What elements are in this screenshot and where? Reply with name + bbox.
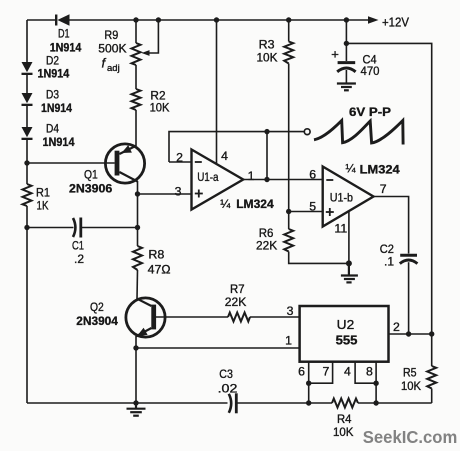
ground below U1-b pin11 [341, 263, 358, 282]
svg-text:10K: 10K [150, 101, 171, 115]
diode D3 [22, 93, 33, 106]
node R9 wiper top [156, 17, 161, 22]
svg-text:2N3906: 2N3906 [69, 182, 112, 196]
svg-text:1N914: 1N914 [38, 67, 70, 81]
svg-text:1N914: 1N914 [43, 135, 75, 149]
svg-text:6V P-P: 6V P-P [349, 105, 391, 119]
svg-text:470: 470 [361, 64, 380, 78]
wire R7 to 555 pin3 [250, 316, 300, 318]
node left rail / C1 [24, 225, 29, 230]
svg-text:22K: 22K [225, 295, 247, 309]
wire bottom rail R4 to right rail [358, 402, 432, 404]
svg-text:1K: 1K [37, 199, 50, 213]
wire Q2 emitter to bottom rail [135, 348, 137, 403]
wire Q1 collector to R8 [137, 194, 139, 246]
svg-text:Q2: Q2 [90, 300, 104, 314]
wire 555 pin2 [389, 333, 432, 335]
node Q1 collector junction [135, 191, 140, 196]
Q1 emitter (to R2) [119, 146, 136, 154]
svg-text:.2: .2 [74, 252, 84, 266]
svg-text:3: 3 [287, 304, 294, 318]
svg-text:¼: ¼ [220, 197, 231, 211]
node pin2 / right rail [429, 331, 434, 336]
svg-text:2: 2 [393, 320, 400, 334]
wire U1-a feedback loop [169, 132, 304, 162]
svg-text:adj: adj [107, 63, 120, 74]
node left rail / Q1 base [24, 160, 29, 165]
svg-text:SeekIC.com: SeekIC.com [363, 427, 458, 447]
svg-text:7: 7 [322, 365, 329, 379]
transistor Q2 2N3904 [126, 298, 228, 348]
wire U1-b pin5 stub [289, 211, 323, 213]
svg-text:6: 6 [309, 167, 316, 181]
node bottom rail pins6-7 [306, 400, 311, 405]
wire R6 bottom to pin11 ground node [289, 252, 349, 264]
wire pin5 node to R6 [288, 212, 290, 230]
node pins 4-8 join [373, 381, 378, 386]
svg-text:C1: C1 [72, 239, 84, 253]
Q2 collector [137, 299, 151, 306]
U1-a minus sign [195, 161, 202, 163]
U1-a plus sign [195, 193, 203, 195]
sawtooth waveform [314, 121, 403, 145]
svg-text:f: f [102, 56, 107, 71]
node pin5 / R3 / R6 [286, 209, 291, 214]
svg-text:10K: 10K [401, 379, 422, 393]
svg-text:R3: R3 [259, 38, 275, 52]
node U1-a output [264, 177, 269, 182]
svg-text:7: 7 [380, 182, 387, 196]
svg-text:¼: ¼ [346, 162, 357, 176]
node pin2 / C2 [406, 331, 411, 336]
wire U1-b pin11 [348, 211, 350, 263]
svg-text:LM324: LM324 [360, 162, 400, 176]
svg-text:R7: R7 [230, 282, 245, 296]
node bottom rail pins4-8 [373, 400, 378, 405]
svg-text:11: 11 [334, 221, 347, 235]
svg-text:6: 6 [298, 365, 305, 379]
op-amp U1-a [192, 150, 244, 210]
svg-text:U2: U2 [337, 317, 355, 332]
U1-b plus sign [326, 211, 334, 213]
transistor Q1 2N3906 [29, 110, 145, 194]
svg-text:D4: D4 [46, 122, 59, 136]
wire output up to feedback [266, 132, 268, 180]
ground below C4 [337, 84, 356, 91]
wire left rail [26, 20, 28, 62]
R9 wiper arm [149, 20, 159, 53]
wire R5 bottom to rail corner [431, 389, 433, 404]
+12V arrowhead [368, 16, 379, 23]
node feedback junction [264, 129, 269, 134]
resistor R2 [132, 89, 141, 110]
node pins 6-7 join [306, 381, 311, 386]
wire bottom rail left segment [27, 402, 228, 404]
svg-text:4: 4 [344, 365, 351, 379]
ground below Q2 [127, 403, 146, 416]
svg-text:47Ω: 47Ω [148, 263, 171, 277]
svg-text:22K: 22K [256, 239, 278, 253]
diode D4 [22, 127, 33, 140]
svg-text:D1: D1 [58, 27, 70, 41]
resistor R4 [332, 399, 358, 408]
resistor R8 [133, 246, 142, 270]
svg-text:C3: C3 [219, 367, 233, 381]
svg-text:2N3904: 2N3904 [76, 314, 118, 328]
IC U2 555 [300, 306, 389, 362]
diode D1 [55, 14, 70, 25]
svg-text:U1-a: U1-a [197, 170, 219, 184]
svg-text:+12V: +12V [382, 15, 409, 30]
node R3 top rail [286, 17, 291, 22]
svg-text:4: 4 [221, 149, 228, 163]
svg-text:1: 1 [248, 169, 255, 183]
svg-text:500K: 500K [98, 42, 127, 56]
svg-text:10K: 10K [333, 425, 354, 439]
resistor R3 [284, 20, 293, 212]
svg-text:1N914: 1N914 [41, 101, 72, 115]
node pin4 top rail [214, 17, 219, 22]
Q1 collector [119, 172, 137, 182]
open terminal circle [304, 129, 310, 135]
wire U1-a pin4 from top rail [216, 20, 218, 164]
wire C4 branch to right rail [346, 43, 431, 366]
node Q2 emitter / 555 pin1 [133, 345, 138, 350]
svg-text:.1: .1 [384, 255, 394, 269]
svg-text:555: 555 [336, 333, 358, 348]
wire top rail D1 to +12V arrow [70, 19, 370, 21]
svg-text:R8: R8 [148, 248, 164, 262]
op-amp U1-b [323, 167, 374, 227]
wire U1-a pin3 from Q1 collector [138, 193, 192, 195]
capacitor C2 [400, 255, 418, 334]
potentiometer R9 [132, 20, 159, 89]
capacitor C3 [229, 393, 237, 413]
node bottom rail at Q2 ground [133, 400, 138, 405]
svg-text:R4: R4 [337, 412, 352, 426]
resistor R6 [284, 229, 293, 252]
Q1 base wire [29, 162, 115, 164]
capacitor C4 [337, 20, 355, 83]
svg-text:R1: R1 [36, 186, 50, 200]
svg-text:D2: D2 [46, 53, 59, 67]
wire U1-a pin2 stub [169, 161, 192, 163]
capacitor C1 [29, 218, 138, 238]
resistor R1 [23, 184, 32, 206]
svg-text:D3: D3 [46, 88, 59, 102]
resistor R7 [228, 313, 250, 322]
svg-text:R5: R5 [403, 366, 417, 380]
svg-text:+: + [331, 47, 339, 62]
svg-text:R9: R9 [104, 28, 118, 42]
svg-text:8: 8 [366, 365, 373, 379]
node pin11 ground junction [346, 260, 352, 266]
wire top rail left of D1 [27, 19, 56, 21]
Q2 base wire to R7 [156, 316, 228, 318]
svg-text:1N914: 1N914 [50, 40, 82, 54]
svg-text:U1-b: U1-b [330, 191, 353, 205]
node C4 top rail [344, 17, 349, 22]
node C4 branch [344, 41, 349, 46]
svg-text:10K: 10K [257, 51, 279, 65]
wire 555 pin1 [136, 347, 300, 349]
wire R8 to Q2 collector [136, 270, 139, 299]
555 bottom pins 6 7 4 8 [309, 362, 376, 403]
U1-b minus sign [326, 179, 333, 181]
wire U1-a output to U1-b pin6 [243, 179, 323, 181]
wire U1-b output pin7 [374, 197, 409, 254]
node C1 right / R8 top [135, 225, 140, 230]
Q2 emitter [136, 328, 151, 336]
wire bottom rail C3 to R4 [236, 402, 332, 404]
node R9 top [133, 17, 138, 22]
resistor R5 [427, 366, 436, 389]
svg-text:Q1: Q1 [84, 168, 98, 182]
svg-text:3: 3 [175, 185, 182, 199]
svg-text:LM324: LM324 [236, 197, 274, 211]
svg-text:1: 1 [285, 334, 292, 348]
svg-text:.02: .02 [218, 382, 238, 396]
diode D2 [22, 62, 33, 75]
